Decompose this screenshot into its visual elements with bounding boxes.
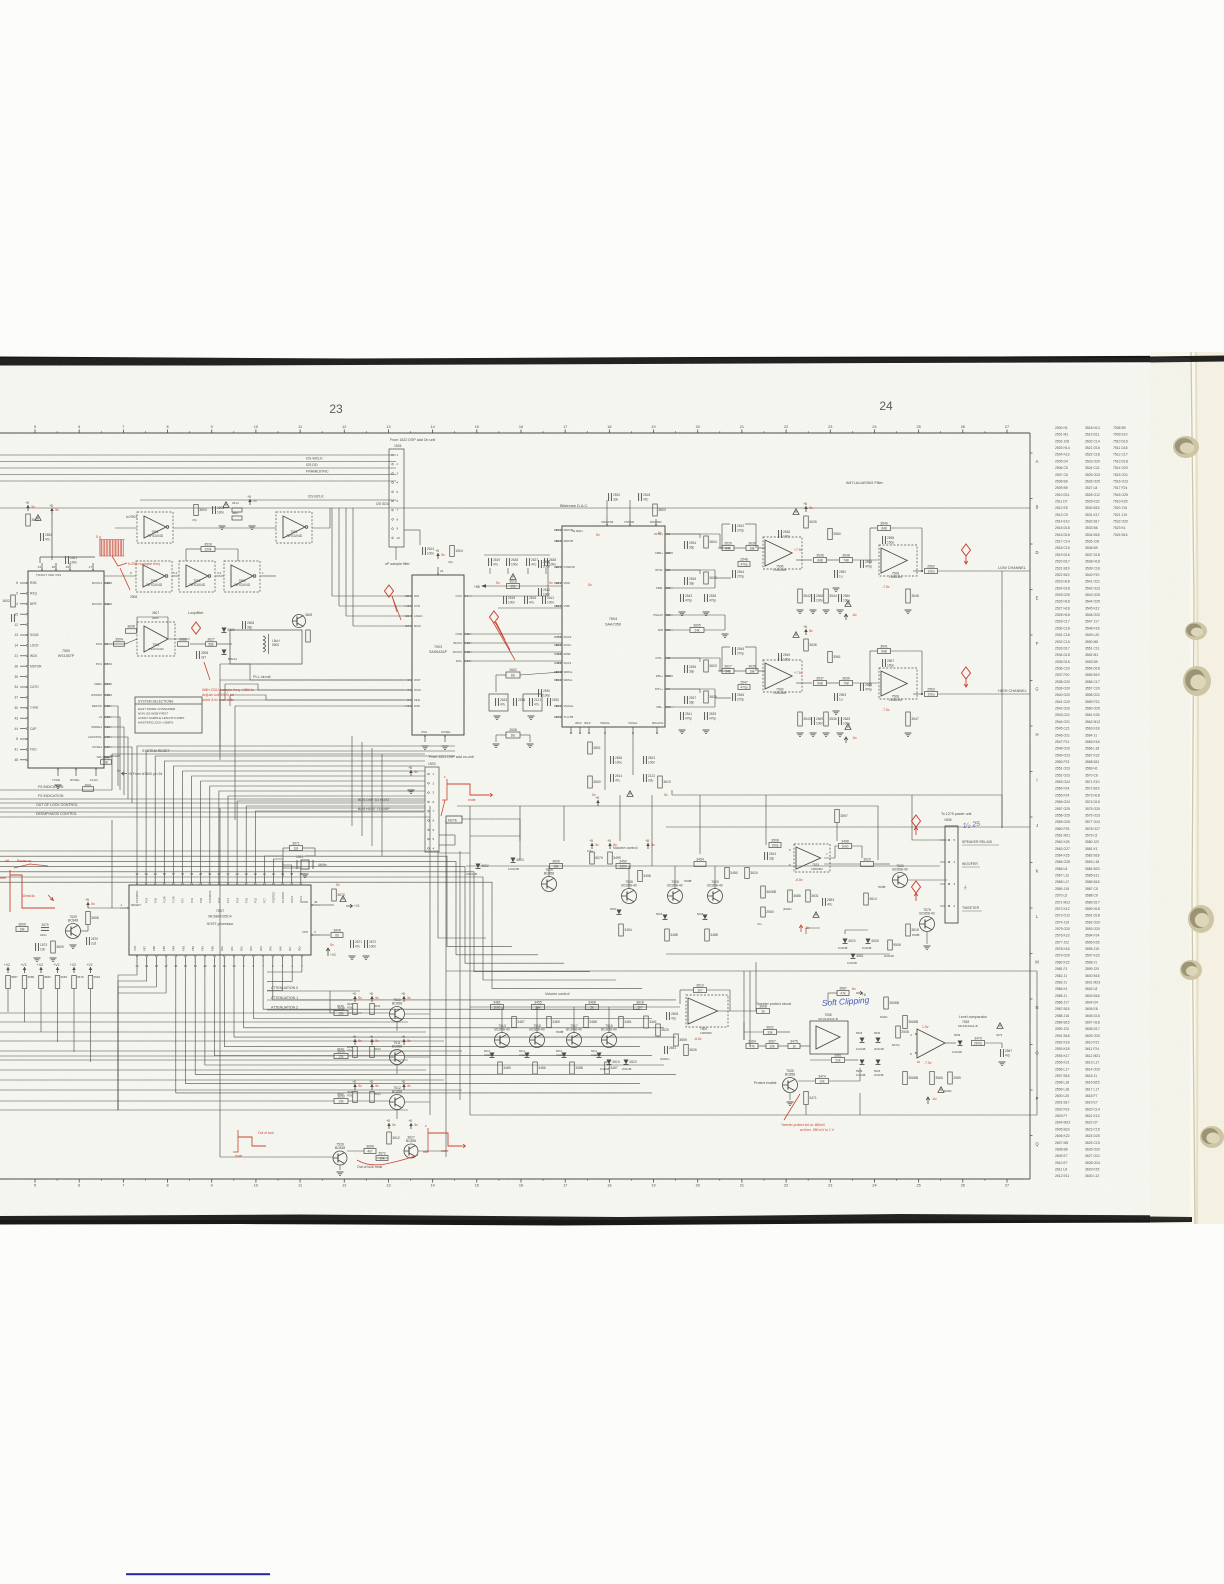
pin 8 IC7504 SCK1: [554, 662, 562, 664]
ground: [823, 732, 830, 734]
wire long rail y1090: [0, 1089, 462, 1091]
supply +8: [805, 629, 807, 635]
capacitor 2636: [610, 756, 612, 764]
supply +5: [249, 499, 251, 505]
wire attenuation 2: [267, 1009, 344, 1011]
inductor 5500: [263, 636, 266, 640]
pin 30 IC7504 IRR: [665, 629, 673, 631]
capacitor 2530: [538, 689, 540, 697]
resistor 3481: [619, 1017, 624, 1028]
red step waveform connector: [442, 779, 447, 800]
pin 27 IC7500 CKSE1: [104, 746, 112, 748]
red diamond test point: [962, 544, 971, 556]
resistor 3542: [798, 589, 803, 603]
resistor 3659: [674, 1034, 679, 1046]
wire comp out down: [805, 1105, 807, 1115]
IC7503 top pin 24: [437, 567, 439, 575]
cap pair frames: [489, 694, 508, 711]
MUTE box: [446, 816, 462, 823]
IC 7503 SAA642AP: [412, 575, 464, 735]
inter stage LOW CHANNEL: [796, 559, 812, 561]
wire I2S bus line 2 WCLK: [0, 461, 396, 463]
wire host top short 16: [282, 862, 284, 877]
binder hole: [1185, 622, 1207, 640]
ground: [55, 784, 62, 786]
IC 7504 SAA7350: [562, 526, 665, 727]
wire from connector down: [395, 547, 397, 560]
capacitor 2569: [811, 717, 813, 725]
book bottom edge black band: [0, 1214, 1190, 1226]
transistor 7508 BC858-40: [668, 889, 683, 904]
resistor 3561: [832, 1058, 845, 1063]
supply +V2: [90, 967, 92, 973]
red annotation arrow: [112, 556, 127, 566]
pin 22 IC7504 FBR-: [665, 587, 673, 589]
IC 7500 WS1557P: [28, 571, 104, 768]
capacitor 2546: [732, 693, 734, 701]
supply +5: [371, 1039, 373, 1045]
resistor 3808: [331, 933, 343, 938]
bottom band over page edge: [1150, 1217, 1192, 1223]
capacitor 2535: [684, 577, 686, 585]
diode 6610 row: [617, 910, 622, 915]
pin 6 IC7503 WST: [404, 679, 412, 681]
capacitor 2549: [778, 653, 780, 661]
pin 8 IC7500: [20, 738, 28, 740]
capacitor 2619: [488, 558, 490, 566]
wire rail staircase 4: [0, 872, 590, 972]
wire vertical x372: [371, 748, 373, 846]
network below 7504: [604, 734, 606, 790]
ground: [349, 955, 356, 957]
capacitor 2508: [196, 651, 198, 659]
capacitor 2554: [860, 560, 862, 568]
resistor 3561: [828, 652, 833, 663]
wire vertical x470: [469, 806, 471, 1115]
red coil scribble f=256xsample freq: [99, 540, 101, 557]
warning triangle: [35, 515, 41, 521]
supply +5: [371, 1084, 373, 1090]
wire rail staircase 3: [0, 867, 564, 964]
ground: [219, 525, 226, 527]
pin 12 IC7504 VDD: [554, 582, 562, 584]
resistor 3541: [878, 649, 891, 654]
pin 14 IC7500: [20, 644, 28, 646]
resistor 3671: [290, 846, 303, 851]
ground: [679, 611, 686, 613]
resistor 3670: [332, 889, 337, 901]
resistor 3450: [616, 864, 630, 869]
wire host top fan 8: [210, 786, 425, 877]
wire loop D: [672, 795, 1002, 828]
capacitor 2552: [834, 570, 836, 578]
capacitor 2672: [364, 940, 366, 948]
capacitor 2679: [41, 927, 49, 929]
warning triangle: [793, 509, 799, 515]
ground: [70, 944, 77, 946]
wire high out down right frame: [1029, 693, 1031, 695]
pin IC7500 bottom: [57, 768, 59, 776]
transistor 7517 BCA58-40: [567, 1033, 582, 1048]
pin 35 IC7500: [20, 676, 28, 678]
wires mute bottom: [347, 1150, 364, 1152]
resistor 9508: [888, 940, 893, 950]
red curve mute: [357, 1155, 418, 1165]
ground: [703, 611, 710, 613]
capacitor 2548: [778, 530, 780, 538]
red diamond test point: [385, 585, 394, 597]
op-amp 7508 LM833M: [879, 668, 917, 699]
pin 41 IC7500: [20, 748, 28, 750]
wire host top fan 3: [164, 761, 425, 877]
red diamond test point: [962, 667, 971, 679]
binder hole: [1188, 905, 1214, 933]
resistor 3540: [878, 526, 891, 531]
wire I2S BCLK: [140, 499, 396, 501]
resistor 3649: [334, 1054, 348, 1059]
ruler tick 21: [741, 430, 743, 434]
transistor 7510 BC858: [390, 1007, 405, 1022]
resistor 3568B: [903, 1016, 908, 1029]
pin 20 IC7504 FBR+: [665, 552, 673, 554]
resistor 2164: [746, 1044, 758, 1049]
transistor 7528 BC848: [333, 1151, 347, 1165]
wire host top short 18: [283, 868, 301, 877]
capacitor 2560: [838, 594, 840, 602]
diode 6508: [866, 939, 871, 944]
resistor 3608B: [761, 886, 766, 898]
wire attenuation 0: [267, 990, 360, 992]
capacitor 2616: [524, 596, 526, 604]
ruler tick 13: [387, 430, 389, 434]
wire long rail y1070: [0, 1069, 426, 1071]
wire long rail y508: [0, 507, 1030, 509]
wire host pin left 3: [118, 963, 166, 1110]
wire host pin fan 13: [176, 963, 652, 1093]
op-amp loopfilter 7501: [137, 622, 175, 656]
wire I2S bus line 1: [0, 454, 396, 456]
connector 1508 speaker relais: [945, 826, 958, 923]
supply +5: [371, 996, 373, 1002]
pin 11 IC7500 RXCN0: [104, 603, 112, 605]
ground: [493, 743, 500, 745]
wire host top fan 13: [255, 811, 425, 877]
row resistor pair: [353, 1004, 358, 1015]
wire verticals protect input: [743, 971, 745, 1040]
ground: [442, 745, 449, 747]
wire vertical x564: [563, 806, 565, 841]
pin 14 IC7503 DOL: [464, 660, 472, 662]
pin 26 IC7500 WSDE1: [104, 726, 112, 728]
lower volume rail: [470, 1006, 680, 1008]
wire 7503 input vertical: [345, 508, 347, 616]
ground: [50, 957, 57, 959]
resistor 3487: [512, 1017, 517, 1028]
resistor 3587: [837, 991, 849, 996]
ground: [337, 1171, 344, 1173]
wire host pin left 0: [118, 963, 137, 1110]
ground: [787, 1101, 794, 1103]
op-amp 7520 lower: [686, 995, 728, 1027]
resistor 3609: [16, 927, 28, 932]
resistor 3648: [334, 1011, 348, 1016]
op-amp 7525: [794, 844, 830, 872]
resistor 3608: [364, 1149, 376, 1154]
resistor 3544: [824, 589, 829, 603]
resistor 3572: [376, 1156, 388, 1161]
book top edge black band: [0, 356, 1224, 366]
pin 18 IC7503 DIN: [404, 595, 412, 597]
transistor 7511 BC858: [390, 1050, 405, 1065]
diode 6500: [222, 628, 227, 633]
wire host pin fan 0: [267, 963, 302, 972]
transistor 7508 BC858-40: [622, 889, 637, 904]
ruler tick 9: [211, 430, 213, 434]
wire rail staircase 5: [0, 877, 616, 980]
host bottom pins: [136, 955, 138, 963]
resistor 3618: [634, 1005, 647, 1010]
resistor 3526: [722, 546, 734, 551]
resistor 3486: [533, 1062, 538, 1074]
capacitor 2534: [684, 541, 686, 549]
diode lower vol: [525, 1053, 530, 1058]
resistor 3604: [194, 505, 199, 516]
pin 7 IC7503 WCK: [404, 689, 412, 691]
supply +V2: [73, 967, 75, 973]
inverter 7502: [179, 561, 215, 592]
pin 15 IC7503 BCKO: [464, 642, 472, 644]
ruler tick 22: [785, 430, 787, 434]
pin 19 IC7504 INTR+: [665, 533, 673, 535]
pin 17 IC7500 top: [92, 563, 94, 571]
resistor 2589: [948, 1072, 953, 1084]
resistor 3602: [704, 572, 709, 584]
resistor 3475: [788, 1044, 800, 1049]
capacitor 2612: [538, 588, 540, 596]
wire 7500 stub f: [112, 727, 124, 795]
wire long rail y1060: [0, 1059, 408, 1061]
resistor 3612: [387, 1132, 392, 1144]
resistor 3605 24k: [673, 629, 690, 631]
ground: [797, 609, 804, 611]
resistor 3605: [704, 691, 709, 703]
resistor 3600: [550, 864, 563, 869]
ruler tick 18: [608, 430, 610, 434]
resistor 3508: [769, 843, 781, 848]
capacitor 2567: [882, 659, 884, 667]
red diamond test point: [490, 611, 499, 623]
pin IC7500 bottom: [75, 768, 77, 776]
wire host top fan 5: [183, 771, 426, 877]
pin 37 IC7500: [20, 696, 28, 698]
wire mute to right: [418, 1150, 446, 1152]
ruler tick 15: [476, 430, 478, 434]
host top pins: [136, 877, 138, 885]
wire vertical x446: [445, 820, 447, 1157]
pin 39 IC7500 top: [69, 563, 71, 571]
resistor 2547: [738, 685, 750, 690]
op-amp 7508 LM833M: [879, 545, 917, 576]
ground: [797, 732, 804, 734]
capacitor 2536: [684, 665, 686, 673]
ground: [837, 732, 844, 734]
capacitor 2665: [838, 717, 840, 725]
pin 12 IC7500: [20, 624, 28, 626]
pin 28 IC7500 REFCK: [104, 705, 112, 707]
resistor 2562: [925, 569, 938, 574]
resistor 3801: [588, 742, 593, 754]
wire host top fan 9: [219, 791, 425, 877]
wire system reset: [112, 753, 425, 755]
ground: [823, 609, 830, 611]
resistor 3603: [704, 660, 709, 672]
red line to pin: [441, 800, 445, 816]
wire 7503 input vertical: [338, 508, 340, 606]
resistor 3631: [806, 890, 811, 902]
ground: [249, 525, 256, 527]
pin 29 IC7504 WROB: [554, 540, 562, 542]
frame bottom section: [470, 1114, 1037, 1116]
capacitor 2530: [547, 698, 549, 706]
supply +5: [591, 843, 593, 849]
supply +5: [410, 1123, 412, 1129]
capacitor 2121: [529, 698, 531, 706]
ruler tick 23: [829, 430, 831, 434]
pin 21 IC7500: [20, 655, 28, 657]
wire I2S bus line 5: [0, 480, 396, 482]
warning triangle: [997, 1023, 1003, 1029]
ruler tick 11: [299, 430, 301, 434]
resistor 3481: [491, 1005, 504, 1010]
output cap HIGH CHANNEL: [913, 693, 922, 695]
wire 7500 stub g: [112, 737, 128, 799]
resistor 3467: [605, 1062, 610, 1074]
ground: [810, 732, 817, 734]
red annotation tweeter: [784, 1094, 800, 1120]
wire host pin left 2: [118, 963, 156, 1110]
wire out of lock: [0, 807, 425, 809]
system selections box: [135, 697, 202, 733]
pin 18 IC7503 WCKO: [464, 651, 472, 653]
red diamond test point: [912, 881, 921, 893]
transistor 7512 BC858: [390, 1095, 405, 1110]
resistor 3566: [930, 1072, 935, 1085]
ground: [905, 609, 912, 611]
capacitor 2518: [513, 698, 515, 706]
wire CKO: [472, 595, 548, 597]
supply +5: [597, 800, 599, 806]
inverter 7501: [276, 512, 312, 543]
pin 44 IC7500: [20, 728, 28, 730]
wire 7500 to 7503 a: [220, 664, 404, 680]
wire vertical x672: [671, 790, 673, 795]
ground: [528, 715, 535, 717]
resistor 2550: [761, 907, 766, 917]
resistor 3468: [586, 1005, 599, 1010]
resistor 3603: [26, 514, 31, 526]
diode 6618 row: [663, 915, 668, 920]
resistor 3803: [653, 504, 658, 516]
diode 6520: [843, 939, 848, 944]
supply +5: [51, 508, 53, 514]
transistor 7530 BC858-40: [893, 873, 908, 888]
op-amp 7506 LM833M: [763, 537, 802, 569]
ruler tick 19: [653, 430, 655, 434]
warning triangle: [340, 896, 346, 902]
wire vertical x766: [765, 795, 767, 845]
pin 34 IC7500: [20, 686, 28, 688]
pin 38 IC7504 INTL-: [665, 657, 673, 659]
resistor 3600: [588, 776, 593, 788]
resistor 657X: [590, 852, 595, 864]
wire host top fan 7: [201, 781, 425, 877]
ground: [494, 715, 501, 717]
resistor 3618: [507, 584, 520, 589]
wire y827 partial: [666, 826, 1030, 828]
warning triangle: [223, 502, 229, 508]
resistor 3474: [816, 1079, 829, 1084]
wires 7503 inputs from left: [332, 595, 404, 597]
resistor 3547: [906, 712, 911, 726]
supply +5: [403, 996, 405, 1002]
ruler tick 14: [432, 430, 434, 434]
resistor 3635: [746, 669, 758, 674]
supply +5: [609, 843, 611, 849]
capacitor 2541: [680, 712, 682, 720]
red waveform out of lock: [423, 1128, 428, 1152]
wire 7500 stub d: [112, 706, 118, 786]
IC7503 bottom pins: [424, 735, 426, 742]
transistor 7513 BC858-40: [495, 1033, 510, 1048]
diode lower vol: [562, 1053, 567, 1058]
wire host top fan 4: [173, 766, 425, 877]
pin 8 IC7500 PO0: [104, 643, 112, 645]
resistor 3667: [766, 1044, 778, 1049]
pin 40 IC7500: [20, 707, 28, 709]
pin 16 IC7500 WSOD0: [104, 694, 112, 696]
supply +5: [354, 1039, 356, 1045]
wire deemphasis: [0, 816, 430, 818]
capacitor 2544: [732, 570, 734, 578]
wire host top fan 2: [155, 756, 455, 877]
wire between inverters top: [173, 527, 276, 529]
ground: [422, 745, 429, 747]
wire rail staircase 0: [0, 851, 486, 938]
pin 16 IC7503 LRGO: [404, 615, 412, 617]
wire volume rail main: [466, 865, 940, 867]
pin 36 IC7504 FBL-: [665, 706, 673, 708]
host left reset pin: [120, 907, 129, 909]
resistor 2602: [506, 672, 520, 678]
resistor 1504: [450, 546, 455, 557]
wire host pin fan 4: [263, 963, 640, 1009]
wire long rail y1022: [0, 1021, 408, 1023]
resistor 3608 pll: [306, 630, 311, 642]
wire host top fan 11: [237, 801, 425, 877]
wire 7503 input vertical: [331, 508, 333, 596]
red power-on waveform: [9, 870, 11, 912]
ground: [302, 873, 309, 875]
capacitor 2520: [608, 493, 610, 501]
resistor 3625: [656, 1024, 661, 1036]
transistor 7529 BC848: [66, 924, 81, 939]
resistor 3489: [547, 1017, 552, 1028]
pin 5 IC7500: [20, 592, 28, 594]
resistor 3480: [725, 868, 730, 879]
crystal 1521: [301, 860, 309, 869]
resistor 3488: [705, 929, 710, 941]
wire host pin fan 7: [234, 963, 676, 1037]
